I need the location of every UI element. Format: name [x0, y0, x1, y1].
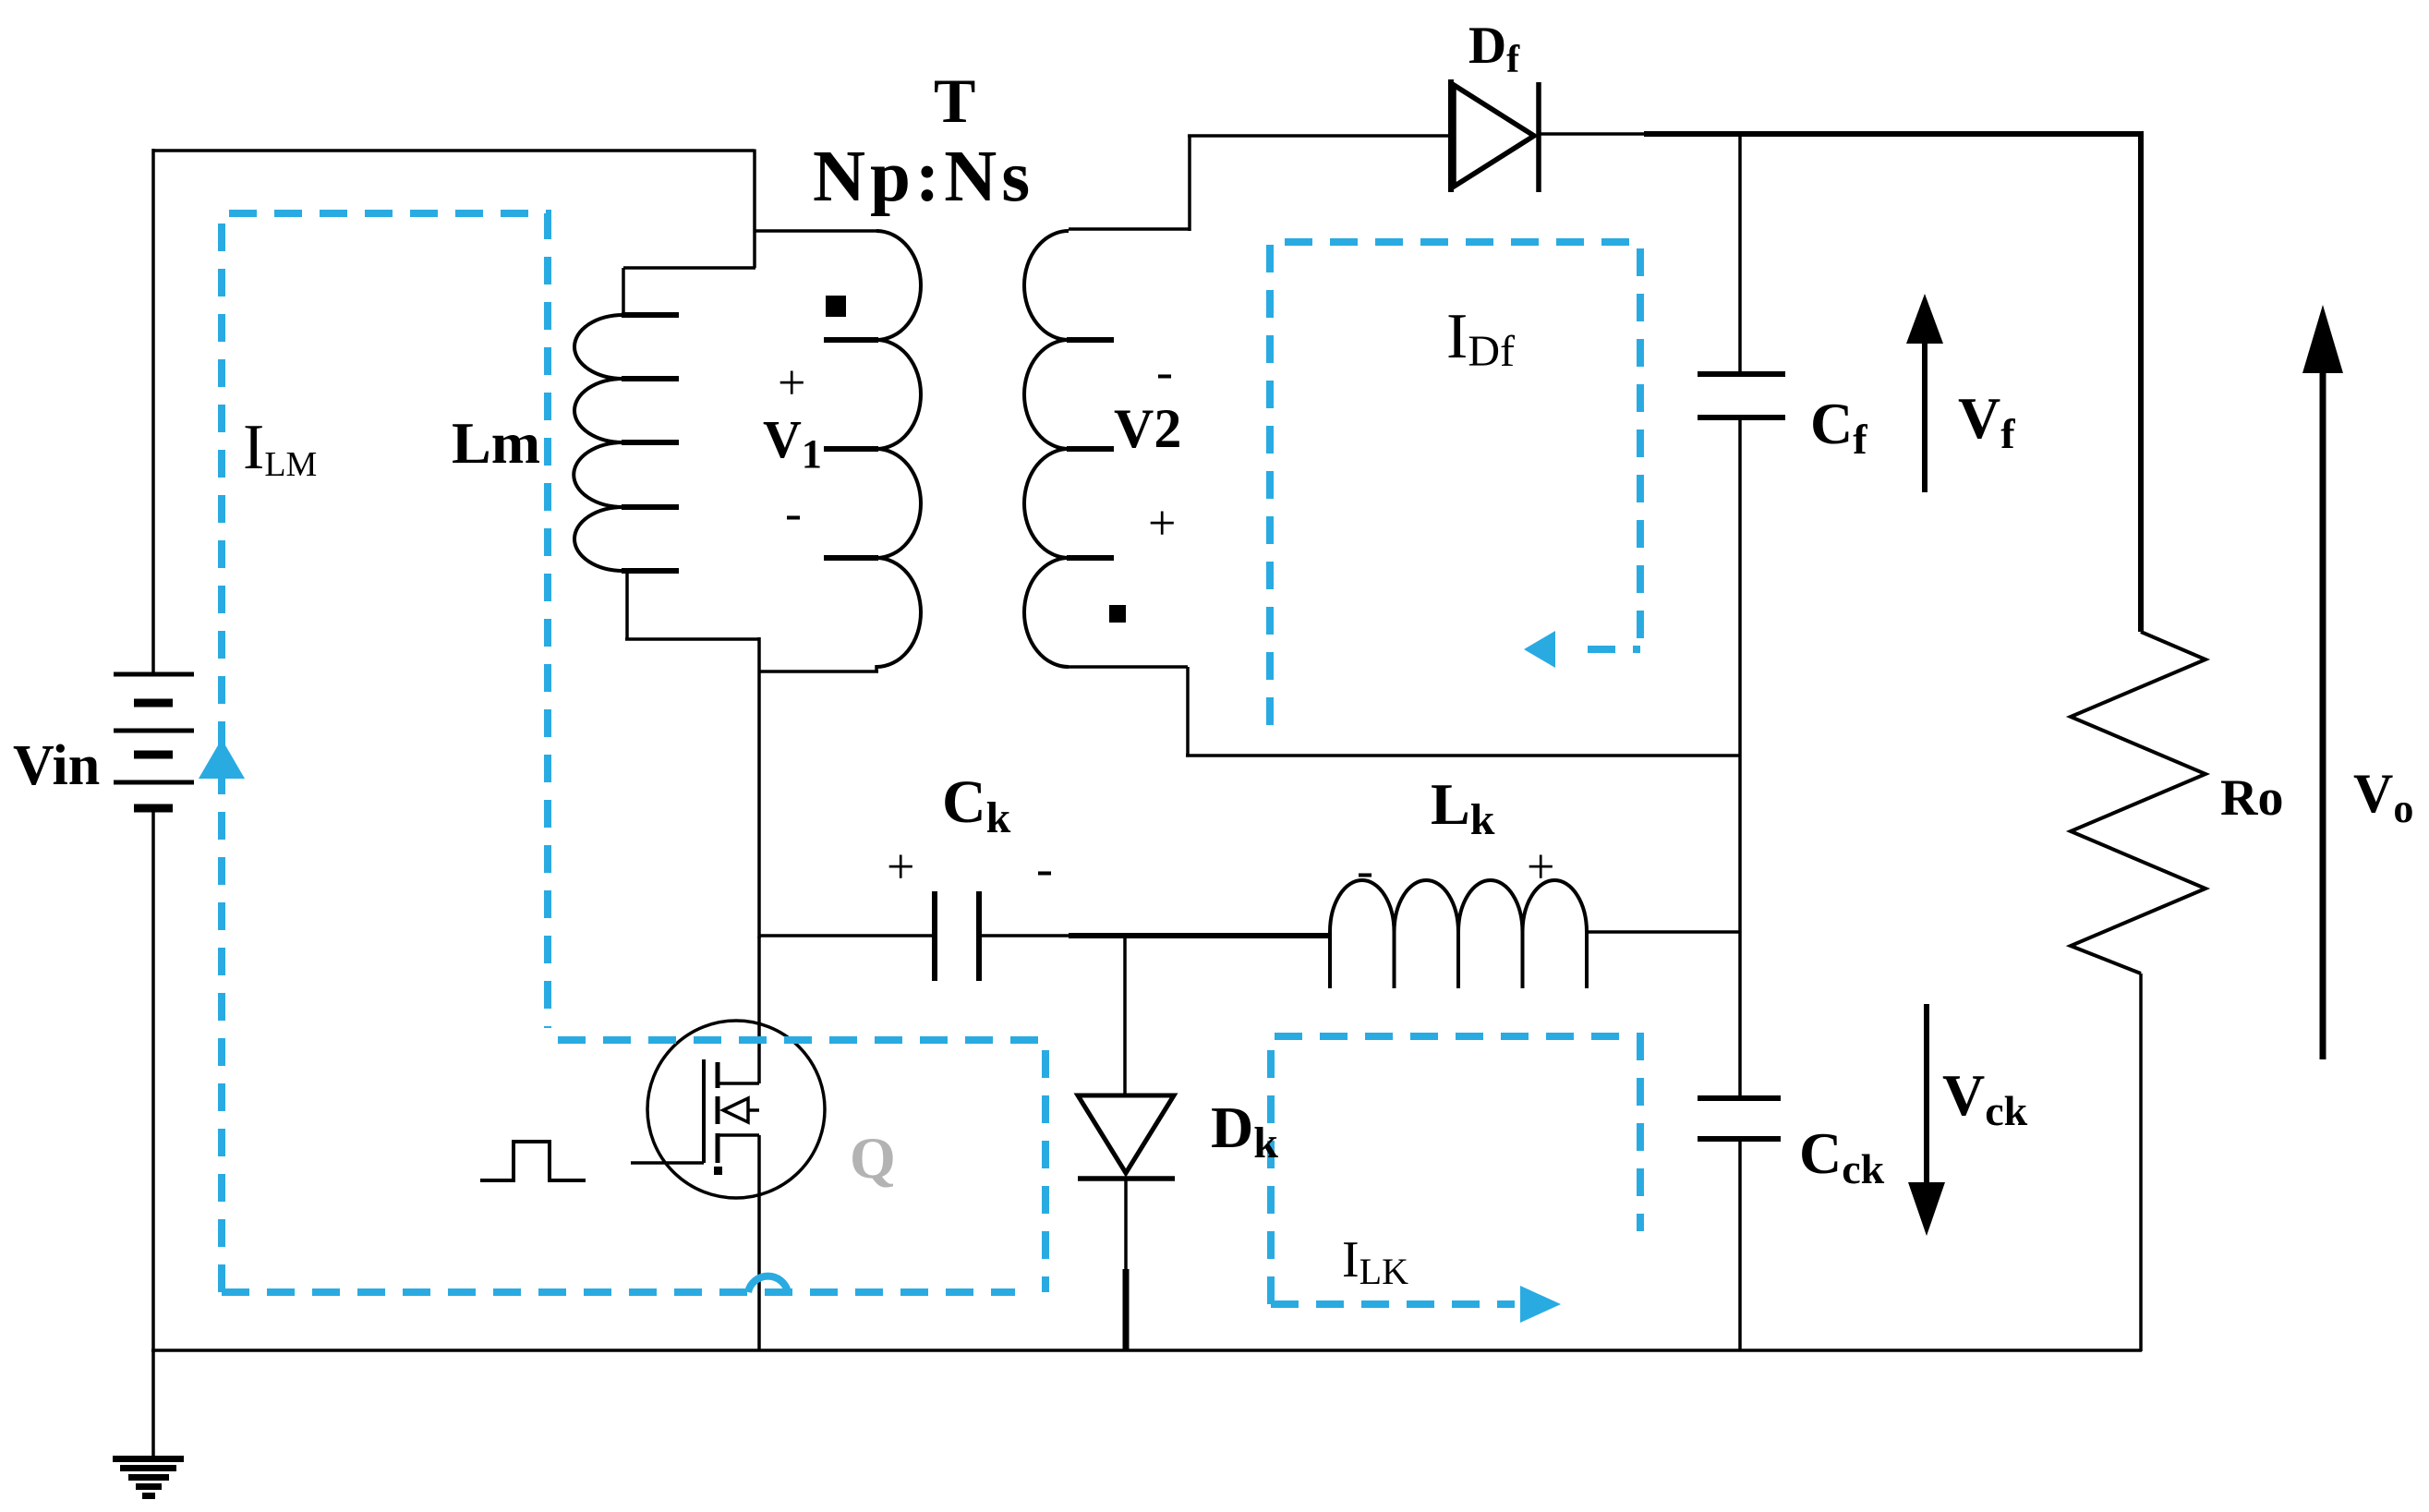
arrowhead ILK right [1520, 1286, 1561, 1323]
svg-text:Ro: Ro [2220, 769, 2283, 827]
arrowhead ILM up [199, 739, 245, 779]
wire primary bottom stub [759, 665, 878, 671]
wire top left horizontal [153, 149, 755, 152]
dot secondary winding [1109, 605, 1126, 623]
wire battery bottom lead [151, 812, 155, 1352]
wire Dk cathode to bottom (thick lower part) [1124, 1179, 1128, 1271]
svg-text:V1: V1 [763, 409, 822, 477]
wire secondary bottom [1069, 667, 1740, 756]
svg-text:Ck: Ck [942, 768, 1011, 842]
wire battery top lead [151, 149, 155, 672]
wire MOSFET source to bottom wire [757, 1135, 761, 1351]
svg-text:Q: Q [850, 1125, 896, 1191]
svg-text:Vck: Vck [1942, 1062, 2028, 1134]
svg-text:+: + [778, 355, 805, 410]
svg-text:+: + [887, 839, 914, 894]
arrow Vf [1906, 294, 1943, 492]
transistor Q (MOSFET) [631, 1021, 825, 1198]
svg-text:Cf: Cf [1810, 391, 1867, 463]
svg-text:Vo: Vo [2353, 763, 2413, 831]
loop IDf dashed box [1270, 242, 1640, 725]
diode Df [1451, 79, 1539, 192]
transformer T primary winding V1 [824, 231, 921, 667]
capacitor Cck [1698, 1098, 1781, 1139]
wire branch to primary top [755, 229, 878, 233]
inductor Lm [574, 315, 679, 571]
svg-text:Lk: Lk [1431, 771, 1495, 844]
svg-text:ILK: ILK [1342, 1231, 1408, 1292]
transformer T secondary winding V2 [1024, 231, 1114, 667]
wire output right vertical (thick) [2138, 131, 2144, 632]
svg-text:-: - [1357, 842, 1373, 898]
loop Q dashed box [558, 1040, 1045, 1292]
wire Cf bottom down the bus [1738, 417, 1742, 1098]
svg-text:+: + [1527, 839, 1554, 894]
wire right bus x=1884 from top wire to Cf [1738, 134, 1742, 374]
ground [113, 1456, 184, 1499]
svg-text:-: - [785, 485, 802, 540]
capacitor Ck [759, 891, 1331, 981]
loop ILK dashed box [1271, 1036, 1640, 1304]
svg-text:+: + [1148, 495, 1176, 550]
wire top-left vertical drop at x=817 [753, 150, 756, 269]
current loop ILM (dashed) [222, 213, 1640, 1304]
capacitor Cf [1698, 374, 1785, 417]
wire bottom bus [151, 1349, 2142, 1352]
diode Dk [1078, 1095, 1175, 1179]
wire secondary top to Df [1069, 136, 1455, 231]
wire branch to Lm top [623, 268, 755, 315]
gate pulse symbol [480, 1142, 586, 1180]
resistor Ro [2071, 632, 2205, 974]
wire drain column x=822 [757, 637, 761, 938]
wire Dk anode from Ck node [1123, 936, 1127, 1094]
wire Cck bottom lead [1738, 1139, 1742, 1351]
svg-text:V2: V2 [1114, 398, 1181, 459]
inductor Lk [1330, 880, 1587, 988]
svg-text:Np:Ns: Np:Ns [813, 137, 1034, 217]
wire Lm bottom to drain column [625, 569, 759, 639]
wire Lk right to bus [1587, 930, 1740, 934]
arrow Vck [1908, 1004, 1945, 1236]
svg-text:-: - [1036, 841, 1053, 896]
svg-text:Df: Df [1468, 17, 1520, 81]
arrowhead IDf left [1524, 631, 1555, 668]
svg-text:Vf: Vf [1958, 385, 2015, 457]
wire Df cathode to output node (thick) [1539, 132, 1646, 136]
svg-text:ILM: ILM [243, 412, 317, 484]
dot primary winding [826, 296, 846, 317]
svg-text:-: - [1156, 344, 1173, 399]
svg-text:T: T [934, 66, 975, 136]
svg-text:IDf: IDf [1446, 301, 1515, 376]
svg-text:Lm: Lm [452, 410, 540, 476]
wire ground stem [151, 1350, 155, 1458]
wire Ro bottom lead [2139, 974, 2143, 1351]
svg-text:Cck: Cck [1799, 1120, 1885, 1192]
hop arc over source wire [748, 1276, 788, 1292]
arrow Vo [2302, 305, 2343, 1059]
battery Vin plates [114, 674, 194, 808]
svg-text:Vin: Vin [13, 734, 100, 797]
wire MOSFET drain into circle [757, 937, 761, 1083]
